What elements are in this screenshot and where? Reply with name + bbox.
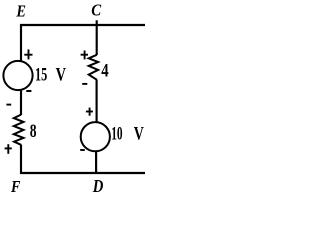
resistor R 8ohm zigzag [14,115,24,145]
wire middle top (C to R4), overshoots above rail [96,20,98,55]
V1 minus sign [26,90,31,92]
wire top rail E-C [20,24,145,26]
svg-text:V: V [134,123,144,144]
resistor R 4ohm minus sign [82,83,87,85]
resistor R 8ohm minus sign [6,104,11,106]
wire middle bottom (V2 to D) [95,151,97,174]
svg-text:D: D [92,176,104,196]
resistor R 4ohm plus sign [81,51,88,60]
svg-text:4: 4 [101,61,109,82]
svg-text:15: 15 [35,65,47,86]
svg-text:V: V [56,65,67,86]
svg-text:10: 10 [111,123,122,144]
V2 minus sign [80,149,85,151]
wire middle mid (R4 to source V2) [96,80,98,123]
V1 plus sign [24,49,32,59]
svg-text:C: C [91,0,101,19]
resistor R 8ohm plus sign [5,144,12,154]
voltage source V2 10V circle [81,122,110,151]
svg-text:F: F [10,177,21,196]
svg-text:8: 8 [30,121,37,142]
wire left top (E to source) [20,24,22,61]
wire bottom rail F-D [20,172,145,174]
svg-text:E: E [16,2,26,21]
resistor R 4ohm zigzag [89,55,98,80]
wire left mid (source to R8) [20,90,22,115]
wire left bottom (R8 to F) [20,145,22,174]
voltage source V1 15V circle [3,61,32,90]
V2 plus sign [86,108,93,116]
